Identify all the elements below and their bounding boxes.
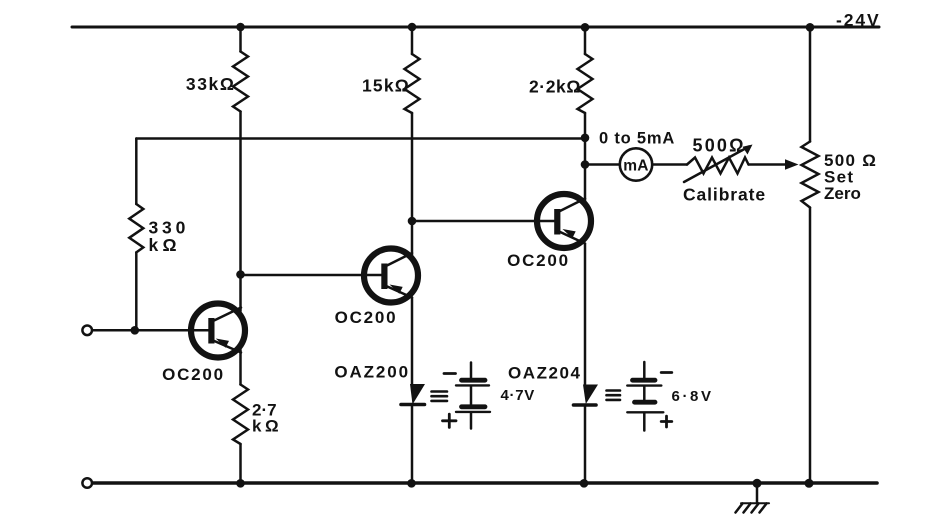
wire: top rail to R7: [809, 27, 812, 142]
svg-text:-24V: -24V: [836, 10, 881, 30]
node: top rail / R3 junction: [581, 23, 590, 32]
svg-text:0 to 5mA: 0 to 5mA: [599, 130, 675, 148]
node: input / R4 junction: [131, 326, 140, 335]
svg-text:OAZ204: OAZ204: [508, 364, 582, 383]
transistor Q3 OC200: [537, 194, 591, 248]
top power rail -24V: [72, 26, 879, 29]
resistor R4 330kΩ: [129, 139, 143, 331]
svg-text:OC200: OC200: [335, 308, 398, 327]
wire: R6 to wiper arrow: [749, 163, 788, 166]
svg-text:2·2kΩ: 2·2kΩ: [529, 77, 581, 97]
wiper arrow through R6: [684, 145, 753, 183]
zener diode D1 OAZ200: [401, 384, 425, 483]
resistor R1 33kΩ: [233, 27, 248, 112]
node: top rail / R7 junction: [806, 23, 815, 32]
plus sign (B2): [661, 416, 672, 427]
resistor R5 2.7kΩ: [233, 385, 248, 445]
node: top rail / R1 junction: [236, 23, 245, 32]
ground: [736, 483, 770, 513]
resistor R2 15kΩ: [405, 27, 420, 113]
node: feedback rail / R3 line: [581, 134, 590, 143]
node: bottom rail / D2: [580, 479, 589, 488]
transistor Q2 OC200: [364, 249, 418, 303]
transistor Q1 OC200: [191, 304, 245, 358]
wire: R5 to bottom rail: [239, 444, 242, 483]
node: bottom rail / R7: [805, 479, 814, 488]
svg-text:kΩ: kΩ: [149, 235, 181, 255]
resistor R6 500Ω calibrate: [687, 158, 749, 174]
svg-text:4·7V: 4·7V: [501, 387, 536, 404]
node: meter tap junction: [581, 160, 590, 169]
terminal: input: [82, 326, 92, 336]
bottom rail: [92, 481, 877, 485]
node: bottom rail / D1: [407, 479, 416, 488]
minus sign (B1): [444, 372, 456, 375]
node: Q1 collector / Q2 base junction: [236, 270, 245, 279]
wire: junction to meter: [585, 163, 620, 166]
svg-text:15kΩ: 15kΩ: [362, 76, 410, 96]
wire: R2 bottom to Q2 collector: [411, 113, 414, 256]
node: bottom rail / ground: [753, 479, 762, 488]
wire: R7 to bottom rail: [809, 208, 812, 484]
battery B1 4.7V equivalent: [456, 363, 490, 429]
meter M1 mA: [620, 148, 652, 180]
wire: junction to Q2 base: [241, 274, 382, 277]
battery B2 6.8V equivalent: [627, 362, 663, 431]
wire: input to Q1 base: [92, 329, 208, 332]
wire: Q1 emitter to R5: [239, 350, 242, 385]
resistor R7 500Ω set zero: [802, 142, 819, 208]
wire: R3 bottom to Q3 collector: [584, 113, 587, 201]
svg-text:kΩ: kΩ: [252, 417, 282, 436]
wire: meter to R6: [652, 163, 687, 166]
node: top rail / R2 junction: [408, 23, 417, 32]
arrowhead to R7 wiper: [785, 159, 799, 169]
equivalence sign (D1): [432, 392, 448, 401]
minus sign (B2): [661, 371, 672, 374]
svg-text:500Ω: 500Ω: [693, 136, 746, 156]
svg-text:Calibrate: Calibrate: [683, 185, 766, 205]
svg-text:OC200: OC200: [162, 365, 225, 384]
svg-text:OAZ200: OAZ200: [334, 363, 410, 382]
svg-text:Zero: Zero: [824, 184, 861, 203]
plus sign (B1): [443, 414, 457, 427]
terminal: bottom input: [82, 478, 92, 488]
wire: Q3 emitter to D2: [584, 244, 587, 385]
equivalence sign (D2): [607, 391, 621, 400]
wire: R1 bottom to Q1 collector: [239, 112, 242, 312]
svg-text:33kΩ: 33kΩ: [186, 74, 236, 94]
svg-text:6·8V: 6·8V: [672, 388, 714, 405]
resistor R3 2.2kΩ: [578, 27, 593, 113]
wire: junction to Q3 base: [412, 220, 554, 223]
node: bottom rail / R5: [236, 479, 245, 488]
node: Q2 collector / Q3 base junction: [408, 217, 417, 226]
svg-text:mA: mA: [623, 157, 649, 174]
svg-text:OC200: OC200: [507, 251, 570, 270]
wire: Q2 emitter to D1: [411, 298, 414, 386]
zener diode D2 OAZ204: [574, 385, 599, 484]
feedback rail: [136, 137, 585, 140]
